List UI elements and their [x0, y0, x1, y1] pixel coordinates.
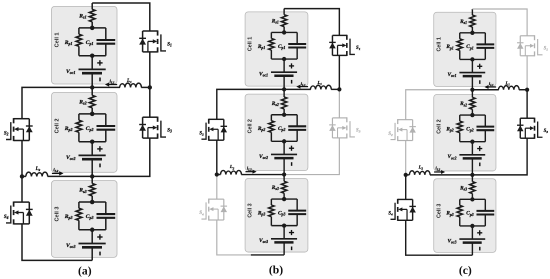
resistor Rs2	[281, 97, 286, 109]
svg-text:(c): (c)	[459, 264, 472, 277]
cell 3 box	[52, 181, 118, 258]
battery Voc3 plus sign	[477, 232, 482, 234]
wire RC loop bottom bar cell 3	[460, 225, 486, 227]
capacitor Cp2	[288, 125, 306, 127]
wire S4 source to bottom rail	[22, 224, 58, 261]
wire node2 to S4 drain	[405, 175, 407, 200]
transistor S4 (MOSFET)	[398, 198, 413, 200]
wire top rail to S1	[284, 9, 339, 36]
svg-text:Cell 1: Cell 1	[248, 37, 254, 51]
node junction right-rail/node1	[337, 87, 341, 91]
wire L2 to arrow	[430, 174, 472, 176]
wire RC right branch lower cell 1	[484, 48, 486, 59]
wire Rs3 to RC node	[91, 196, 93, 202]
wire S3 source to node2 right	[472, 138, 527, 175]
wire RC loop top bar cell 1	[460, 32, 486, 34]
battery Voc1 minus sign	[479, 80, 481, 84]
wire RC loop top bar cell 2	[271, 114, 297, 116]
svg-text:S3: S3	[544, 129, 549, 134]
battery Voc3 negative plate	[82, 246, 102, 249]
svg-text:S2: S2	[388, 132, 393, 137]
wire battery to cell bottom cell 2	[91, 159, 93, 176]
wire node1 left to S2 drain	[22, 87, 92, 118]
wire Rs2 to RC node	[91, 108, 93, 114]
battery Voc2 plus sign	[477, 148, 482, 150]
capacitor Cp3	[476, 210, 494, 212]
wire RC left branch lower cell 3	[78, 220, 80, 229]
battery Voc3 negative plate	[463, 241, 482, 244]
svg-text:Voc1: Voc1	[66, 69, 76, 75]
svg-text:Cell 3: Cell 3	[436, 204, 442, 218]
cell 2 box	[434, 95, 496, 171]
wire node2 to S4 drain	[21, 176, 23, 202]
node junction trunk/node2	[90, 174, 94, 178]
battery Voc1 negative plate	[274, 74, 293, 77]
svg-text:L1: L1	[126, 79, 132, 84]
wire RC left branch upper cell 1	[78, 28, 80, 34]
svg-text:Voc3: Voc3	[66, 243, 76, 249]
wire RC loop bottom bar cell 2	[271, 140, 297, 142]
wire RC node to battery cell 1	[283, 59, 285, 72]
battery Voc2 minus sign	[99, 164, 101, 168]
wire Rs1 to RC node	[471, 27, 473, 33]
battery Voc3 negative plate	[274, 241, 293, 244]
capacitor Cp3	[288, 210, 306, 212]
wire L1 to right rail	[141, 86, 150, 88]
wire node1 left to S2 drain	[217, 89, 284, 119]
wire trunk above Rs1	[283, 9, 285, 15]
cell 1 box	[434, 12, 496, 86]
wire RC right branch lower cell 2	[296, 130, 298, 141]
cell 2 box	[52, 92, 118, 172]
current arrow iL2	[52, 172, 61, 174]
wire node1 to inductor L1	[472, 89, 498, 91]
battery Voc1 negative plate	[82, 72, 102, 75]
wire RC left branch upper cell 3	[270, 199, 272, 205]
resistor Rs2	[89, 95, 95, 107]
battery Voc2 positive plate	[79, 154, 106, 156]
resistor Rp1	[269, 38, 274, 50]
svg-text:S2: S2	[199, 131, 204, 136]
current arrow iL2	[434, 171, 442, 173]
wire RC left branch lower cell 1	[78, 46, 80, 55]
resistor Rs1	[89, 9, 95, 21]
wire RC node to battery cell 1	[91, 56, 93, 70]
wire L2 to arrow	[48, 175, 93, 177]
capacitor Cp3	[97, 213, 116, 215]
wire trunk above Rs3	[283, 173, 285, 182]
wire RC right branch upper cell 1	[296, 32, 298, 44]
resistor Rs2	[470, 97, 475, 109]
svg-text:L2: L2	[35, 167, 41, 172]
svg-text:S3: S3	[356, 129, 361, 134]
node: RC bottom junction cell 2	[282, 139, 286, 143]
node: RC bottom junction cell 3	[470, 224, 474, 228]
wire RC right branch lower cell 3	[105, 218, 107, 230]
circuit figure (b)	[199, 9, 360, 255]
node: RC top junction cell 2	[282, 113, 286, 117]
wire RC loop top bar cell 1	[271, 31, 297, 33]
wire node2 left rail to inductor L2	[22, 175, 26, 177]
node: RC top junction cell 3	[90, 200, 95, 205]
battery Voc2 plus sign	[289, 147, 294, 149]
svg-text:Cell 2: Cell 2	[436, 119, 442, 133]
node: RC bottom junction cell 3	[90, 228, 95, 233]
resistor Rp3	[76, 208, 82, 220]
wire RC left branch lower cell 3	[459, 217, 461, 226]
node junction trunk/node1	[282, 87, 286, 91]
wire Rs1 to RC node	[91, 22, 93, 28]
svg-text:(b): (b)	[269, 264, 283, 277]
node: RC top junction cell 1	[90, 26, 95, 31]
wire RC left branch lower cell 1	[459, 50, 461, 59]
wire bottom rail to trunk	[58, 259, 93, 261]
inductor L2	[221, 170, 242, 174]
node: RC top junction cell 1	[470, 31, 474, 35]
node junction trunk/node1	[470, 88, 474, 92]
wire RC right branch lower cell 1	[296, 48, 298, 59]
wire RC right branch upper cell 1	[484, 33, 486, 45]
battery Voc2 minus sign	[479, 163, 481, 167]
svg-text:Cell 1: Cell 1	[436, 37, 442, 51]
wire RC loop bottom bar cell 1	[460, 58, 486, 60]
wire S1 source to node1	[526, 56, 528, 90]
battery Voc1 plus sign	[289, 65, 294, 67]
node: RC top junction cell 2	[90, 112, 95, 117]
wire RC left branch lower cell 2	[270, 132, 272, 141]
wire S3 source to node2 right	[92, 138, 150, 176]
wire RC right branch lower cell 3	[296, 214, 298, 225]
transistor S4 (MOSFET)	[14, 201, 30, 203]
current arrow iL2	[245, 171, 253, 173]
wire battery to cell bottom cell 1	[471, 76, 473, 90]
wire RC loop top bar cell 3	[460, 198, 486, 200]
battery Voc3 positive plate	[459, 238, 485, 240]
capacitor Cp1	[476, 43, 494, 45]
svg-text:S1: S1	[356, 46, 361, 51]
wire Rs2 to RC node	[283, 109, 285, 115]
wire Rs2 to RC node	[471, 109, 473, 115]
svg-text:Voc2: Voc2	[66, 155, 76, 161]
cell 3 box	[434, 179, 496, 253]
wire RC node to battery cell 1	[471, 59, 473, 72]
wire battery to cell bottom cell 2	[283, 158, 285, 174]
wire RC left branch upper cell 3	[459, 199, 461, 205]
battery Voc3 positive plate	[79, 243, 106, 245]
wire RC loop bottom bar cell 1	[79, 55, 106, 57]
resistor Rp2	[76, 120, 82, 132]
wire RC right branch lower cell 1	[105, 44, 107, 56]
current arrow iL1	[487, 86, 496, 88]
current arrow iL1	[108, 84, 117, 86]
wire RC right branch upper cell 3	[296, 199, 298, 211]
transistor S3 (MOSFET)	[332, 117, 346, 119]
cell 2 box	[245, 94, 308, 170]
wire RC loop bottom bar cell 2	[460, 141, 486, 143]
wire S2 source to node2	[216, 140, 218, 174]
wire RC left branch upper cell 3	[78, 202, 80, 208]
svg-text:Rp3: Rp3	[64, 214, 73, 220]
cell 1 box	[52, 6, 118, 84]
svg-text:S4: S4	[199, 211, 204, 216]
svg-text:Cp2: Cp2	[86, 126, 94, 132]
transistor S2 (MOSFET)	[14, 118, 30, 120]
wire RC loop bottom bar cell 2	[79, 141, 106, 143]
node: RC top junction cell 3	[282, 197, 286, 201]
battery Voc3 positive plate	[271, 238, 297, 240]
battery Voc1 plus sign	[97, 62, 102, 64]
wire RC right branch lower cell 2	[105, 130, 107, 142]
node junction left-rail/node2	[20, 174, 24, 178]
wire RC node to battery cell 2	[91, 142, 93, 156]
wire RC right branch upper cell 3	[105, 202, 107, 214]
node: RC top junction cell 1	[282, 30, 286, 34]
wire RC loop bottom bar cell 3	[79, 229, 106, 231]
wire trunk above Rs1	[91, 3, 93, 9]
wire S2 source to node2	[21, 141, 23, 177]
wire RC node to battery cell 3	[471, 226, 473, 239]
battery Voc3 plus sign	[289, 232, 294, 234]
node: RC bottom junction cell 1	[282, 57, 286, 61]
svg-text:Rs1: Rs1	[78, 14, 86, 20]
battery Voc1 minus sign	[291, 80, 293, 84]
node junction left-rail/node2	[215, 172, 219, 176]
svg-text:Rp1: Rp1	[64, 40, 73, 46]
inductor L2	[409, 171, 430, 175]
resistor Rp2	[269, 121, 274, 133]
node junction trunk/node2	[470, 173, 474, 177]
capacitor Cp1	[288, 43, 306, 45]
wire trunk above Rs2	[91, 86, 93, 95]
transistor S3 (MOSFET)	[143, 116, 158, 118]
wire RC left branch upper cell 1	[459, 33, 461, 39]
resistor Rs3	[89, 184, 95, 196]
wire RC right branch upper cell 2	[484, 115, 486, 127]
wire RC loop top bar cell 1	[79, 27, 106, 29]
inductor L1	[310, 85, 331, 89]
battery Voc3 minus sign	[99, 252, 101, 256]
svg-text:Rs3: Rs3	[78, 188, 86, 194]
wire trunk above Rs3	[471, 173, 473, 182]
wire L1 to right rail	[519, 89, 527, 91]
node: RC bottom junction cell 2	[470, 140, 474, 144]
wire battery to cell bottom cell 1	[283, 76, 285, 90]
svg-text:Cell 3: Cell 3	[248, 203, 254, 217]
current arrow iL1	[299, 86, 308, 88]
battery Voc1 positive plate	[271, 71, 297, 73]
wire node2 to S4 drain	[216, 175, 218, 200]
battery Voc3 minus sign	[291, 247, 293, 251]
wire RC node to battery cell 3	[283, 226, 285, 239]
wire RC right branch upper cell 2	[105, 114, 107, 126]
transistor S1 (MOSFET)	[332, 34, 346, 36]
resistor Rp2	[457, 121, 462, 133]
inductor L1	[498, 86, 519, 90]
wire RC loop bottom bar cell 3	[271, 225, 297, 227]
battery Voc1 positive plate	[459, 72, 485, 74]
wire Rs1 to RC node	[283, 27, 285, 33]
battery Voc1 minus sign	[99, 78, 101, 82]
circuit figure (a)	[4, 3, 172, 260]
wire RC node to battery cell 3	[91, 230, 93, 244]
wire battery to cell bottom cell 1	[91, 73, 93, 87]
wire battery to cell bottom cell 3	[283, 242, 285, 255]
cell 3 box	[245, 178, 308, 252]
wire L1 to right rail	[331, 88, 339, 90]
resistor Rs1	[281, 15, 286, 27]
wire top rail to S1	[472, 9, 527, 36]
battery Voc2 minus sign	[291, 162, 293, 166]
battery Voc2 plus sign	[97, 148, 102, 150]
resistor Rs3	[470, 182, 475, 194]
resistor Rs3	[281, 181, 286, 193]
wire Rs3 to RC node	[283, 193, 285, 199]
wire RC right branch upper cell 3	[484, 199, 486, 211]
wire RC loop top bar cell 3	[79, 201, 106, 203]
wire RC loop bottom bar cell 1	[271, 58, 297, 60]
svg-text:S4: S4	[4, 215, 9, 220]
wire node1 left to S2 drain	[406, 90, 473, 120]
wire node1 to S3	[149, 87, 151, 117]
node junction left-rail/node2	[404, 173, 408, 177]
wire S2 source to node2	[405, 141, 407, 175]
wire S3 source to node2 right	[284, 138, 339, 175]
wire trunk above Rs1	[471, 9, 473, 15]
svg-text:Cp3: Cp3	[86, 214, 94, 220]
resistor Rp1	[76, 34, 82, 46]
battery Voc3 plus sign	[97, 236, 102, 238]
wire RC left branch upper cell 2	[78, 114, 80, 120]
node junction trunk/node2	[282, 172, 286, 176]
wire RC left branch lower cell 2	[78, 132, 80, 141]
battery Voc3 minus sign	[479, 247, 481, 251]
battery Voc1 negative plate	[463, 75, 482, 78]
wire RC left branch upper cell 2	[459, 115, 461, 121]
wire node1 to inductor L1	[92, 86, 120, 88]
inductor L1	[120, 83, 142, 87]
transistor S3 (MOSFET)	[520, 117, 534, 119]
circuit figure (c)	[388, 9, 548, 255]
wire RC right branch lower cell 3	[484, 214, 486, 225]
wire node1 to S3	[338, 89, 340, 118]
svg-text:S3: S3	[167, 129, 172, 134]
wire top rail to S1	[92, 3, 150, 31]
transistor S2 (MOSFET)	[398, 119, 413, 121]
transistor S1 (MOSFET)	[520, 35, 534, 37]
svg-text:Cell 1: Cell 1	[54, 32, 60, 47]
wire S4 source to bottom rail	[217, 220, 251, 255]
svg-text:Cell 3: Cell 3	[54, 207, 60, 222]
battery Voc2 positive plate	[271, 153, 297, 155]
svg-text:S1: S1	[544, 46, 549, 51]
wire RC left branch upper cell 2	[270, 115, 272, 121]
wire RC loop top bar cell 3	[271, 198, 297, 200]
wire battery to cell bottom cell 2	[471, 158, 473, 174]
wire RC left branch lower cell 1	[270, 50, 272, 59]
wire RC left branch lower cell 2	[459, 133, 461, 142]
node: RC top junction cell 2	[470, 113, 474, 117]
wire RC left branch upper cell 1	[270, 32, 272, 38]
transistor S2 (MOSFET)	[209, 118, 224, 120]
svg-text:(a): (a)	[78, 264, 92, 277]
wire node1 to inductor L1	[284, 88, 311, 90]
wire RC loop top bar cell 2	[79, 113, 106, 115]
wire RC right branch upper cell 1	[105, 28, 107, 40]
wire battery to cell bottom cell 3	[471, 243, 473, 256]
wire RC node to battery cell 2	[283, 141, 285, 154]
wire Rs3 to RC node	[471, 194, 473, 200]
wire trunk above Rs2	[471, 89, 473, 98]
svg-text:S1: S1	[167, 42, 172, 47]
wire node2 left rail to inductor L2	[406, 174, 410, 176]
node junction right-rail/node1	[525, 88, 529, 92]
node junction right-rail/node1	[148, 85, 152, 89]
wire bottom rail to trunk	[439, 254, 472, 256]
wire RC left branch lower cell 3	[270, 217, 272, 226]
svg-text:Cell 2: Cell 2	[54, 118, 60, 133]
wire node1 to S3	[526, 90, 528, 119]
capacitor Cp2	[476, 126, 494, 128]
battery Voc2 positive plate	[459, 154, 485, 156]
capacitor Cp1	[97, 39, 116, 41]
node: RC top junction cell 3	[470, 197, 474, 201]
wire trunk above Rs3	[91, 175, 93, 184]
svg-text:Rs2: Rs2	[78, 100, 86, 106]
svg-text:S4: S4	[388, 212, 393, 217]
cell 1 box	[245, 12, 308, 86]
svg-text:S2: S2	[4, 132, 9, 137]
svg-text:Cell 2: Cell 2	[248, 119, 254, 133]
battery Voc2 negative plate	[274, 157, 293, 160]
node: RC bottom junction cell 1	[90, 53, 95, 58]
node: RC bottom junction cell 3	[282, 223, 286, 227]
wire node2 left rail to inductor L2	[217, 174, 221, 176]
wire trunk above Rs2	[283, 88, 285, 97]
inductor L2	[26, 172, 48, 176]
battery Voc2 negative plate	[463, 157, 482, 160]
wire bottom rail to trunk	[251, 254, 284, 256]
resistor Rs1	[470, 15, 475, 27]
battery Voc1 plus sign	[477, 65, 482, 67]
node: RC bottom junction cell 2	[90, 139, 95, 144]
wire RC right branch lower cell 2	[484, 130, 486, 141]
battery Voc2 negative plate	[82, 158, 102, 161]
wire battery to cell bottom cell 3	[91, 247, 93, 260]
wire S1 source to node1	[149, 52, 151, 88]
wire L2 to arrow	[241, 174, 284, 176]
resistor Rp1	[457, 39, 462, 51]
transistor S1 (MOSFET)	[143, 30, 158, 32]
wire S4 source to bottom rail	[406, 220, 440, 255]
resistor Rp3	[269, 205, 274, 217]
battery Voc1 positive plate	[79, 68, 106, 70]
wire S1 source to node1	[338, 55, 340, 89]
wire RC loop top bar cell 2	[460, 114, 486, 116]
node junction trunk/node1	[90, 85, 94, 89]
wire RC node to battery cell 2	[471, 142, 473, 155]
node: RC bottom junction cell 1	[470, 57, 474, 61]
svg-text:Cp1: Cp1	[86, 40, 94, 46]
transistor S4 (MOSFET)	[209, 198, 224, 200]
svg-text:Rp2: Rp2	[64, 126, 73, 132]
capacitor Cp2	[97, 125, 116, 127]
resistor Rp3	[457, 205, 462, 217]
wire RC right branch upper cell 2	[296, 115, 298, 127]
